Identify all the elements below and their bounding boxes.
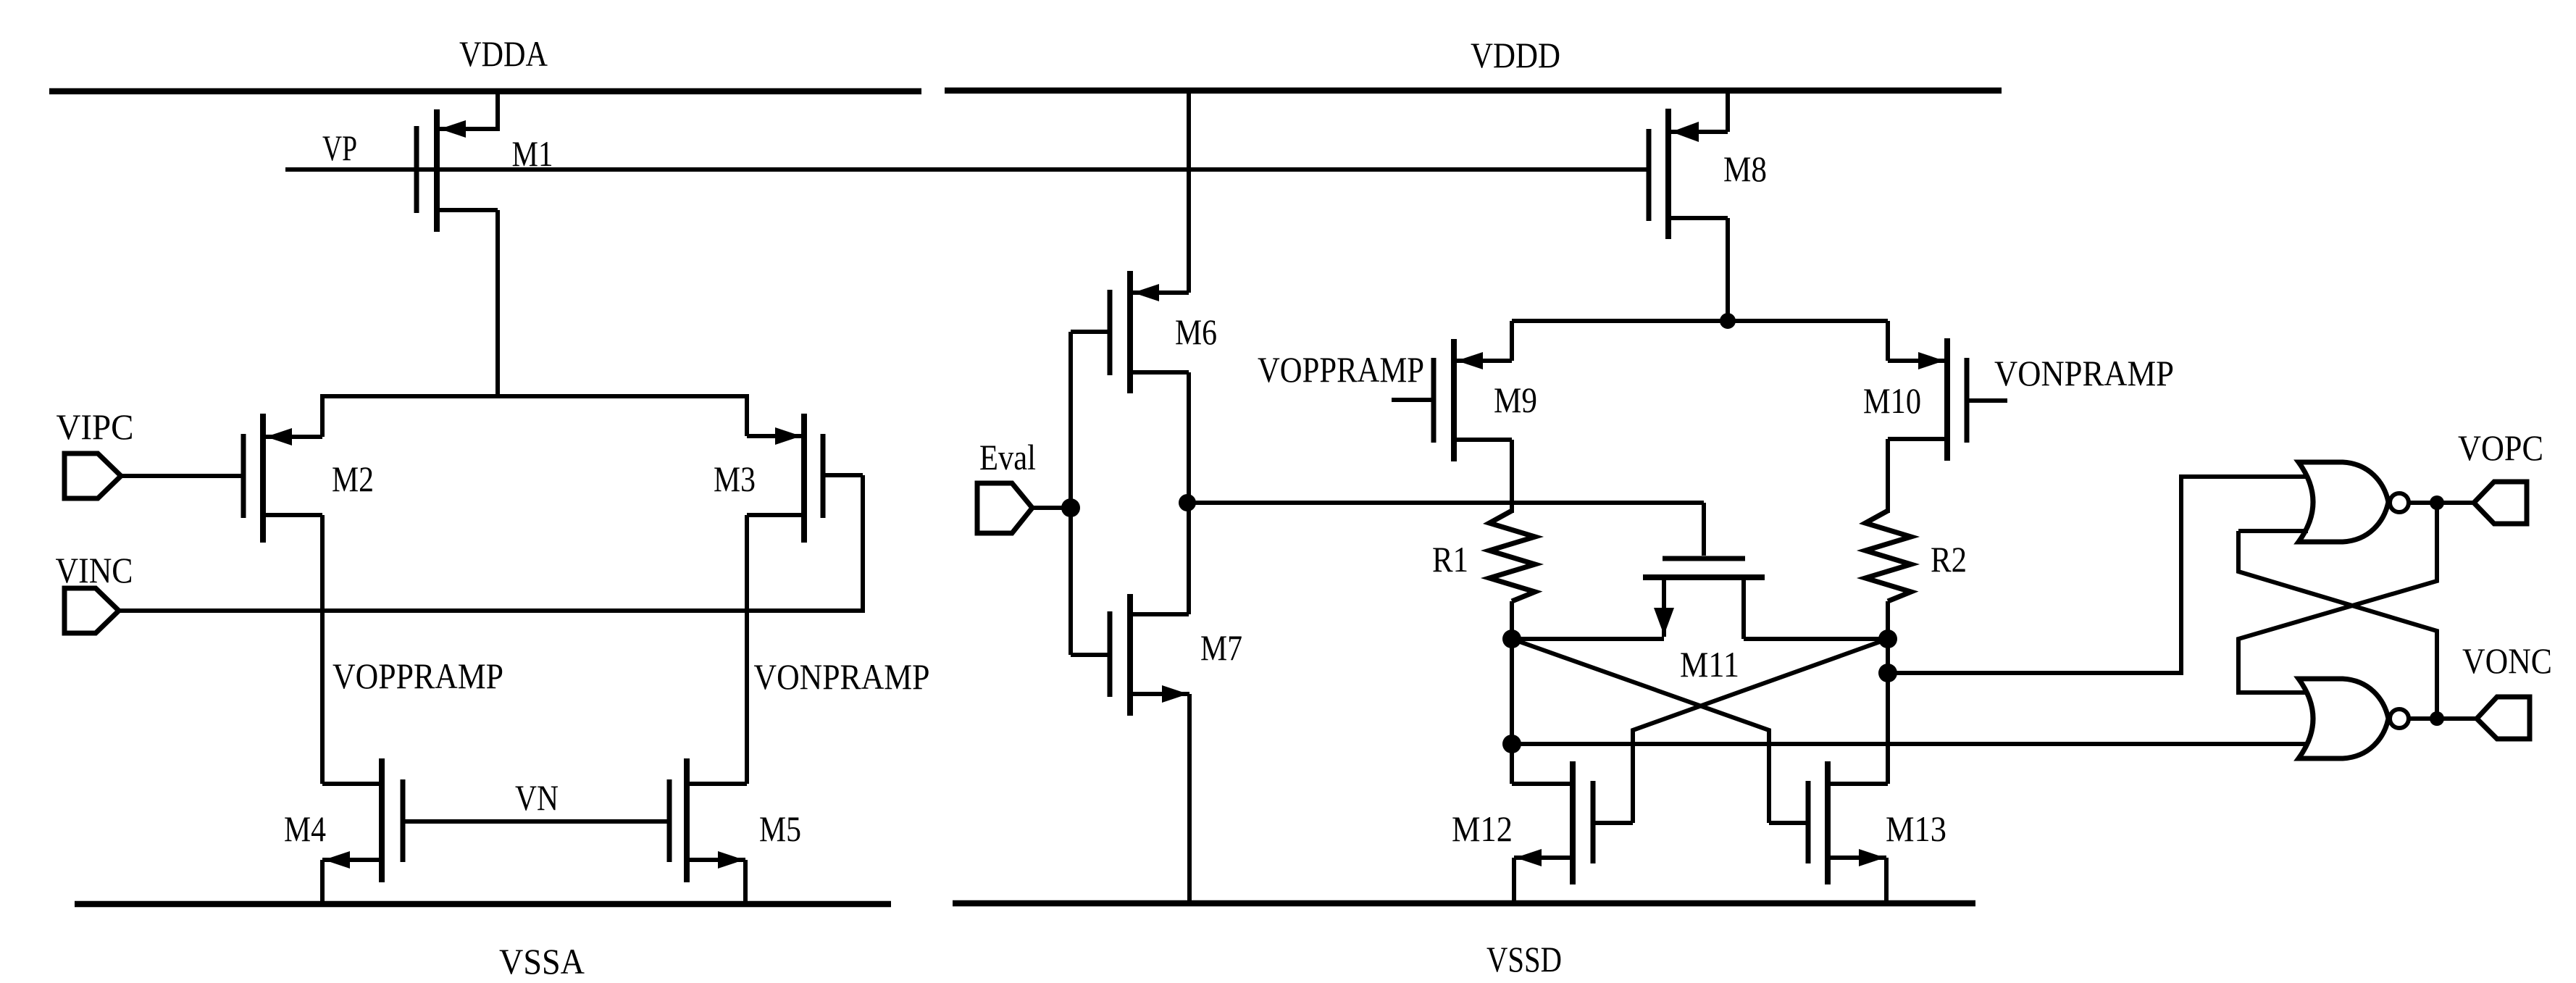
NOR gate U1 [2299, 462, 2409, 542]
svg-text:M12: M12 [1452, 808, 1513, 849]
svg-text:VSSD: VSSD [1486, 939, 1562, 979]
svg-text:M3: M3 [714, 459, 756, 499]
wire NOR2 output [2409, 716, 2480, 721]
port VOPC [2474, 482, 2527, 524]
transistor M7 [1071, 503, 1189, 903]
junction Eval gate [1061, 498, 1080, 517]
svg-text:R1: R1 [1432, 539, 1468, 580]
svg-text:VIPC: VIPC [57, 406, 134, 447]
wire VIPC to M2 gate [119, 474, 243, 478]
transistor M10 [1888, 321, 2007, 513]
svg-text:M10: M10 [1863, 380, 1921, 421]
svg-text:M9: M9 [1494, 380, 1537, 420]
svg-text:M2: M2 [332, 459, 374, 499]
junction NOR1 output [2430, 495, 2444, 510]
svg-text:M1: M1 [512, 133, 553, 174]
wire NOR1 out to NOR2 in [2238, 503, 2437, 693]
wire cross right-to-M12gate [1633, 639, 1888, 823]
svg-text:VONPRAMP: VONPRAMP [1994, 353, 2174, 393]
wire VP bias line [285, 167, 1649, 172]
wire left node to NOR2 input [1512, 742, 2308, 746]
wire right node to NOR1 input [1888, 477, 2307, 673]
junction left output tap [1502, 735, 1521, 753]
NOR gate U2 [2299, 679, 2409, 758]
svg-text:VONC: VONC [2462, 640, 2552, 681]
svg-text:M8: M8 [1723, 149, 1767, 189]
wire left latch vertical [1510, 639, 1514, 784]
svg-text:VDDD: VDDD [1471, 35, 1560, 75]
svg-text:VOPC: VOPC [2458, 427, 2543, 468]
transistor M4 [322, 758, 403, 904]
junction left latch node [1502, 629, 1521, 648]
junction right latch node [1878, 629, 1897, 648]
wire M11 right to node [1744, 637, 1888, 641]
svg-text:VN: VN [515, 777, 559, 818]
resistor R2 [1865, 511, 1911, 641]
svg-text:VSSA: VSSA [499, 941, 585, 982]
svg-text:M11: M11 [1680, 644, 1739, 685]
wire Eval to gates [1031, 506, 1071, 510]
transistor M3 [747, 394, 863, 784]
wire Eval gate vertical [1069, 332, 1073, 655]
svg-text:M5: M5 [759, 808, 801, 849]
transistor M11 [1643, 503, 1765, 639]
transistor M6 [1071, 88, 1189, 505]
svg-text:VOPPRAMP: VOPPRAMP [333, 656, 503, 696]
wire right latch vertical [1886, 639, 1890, 784]
junction M8 drain [1720, 313, 1736, 329]
wire tail node [322, 394, 747, 398]
svg-text:VOPPRAMP: VOPPRAMP [1258, 349, 1424, 390]
wire NOR2 out to NOR1 in [2238, 531, 2437, 719]
port Eval [977, 483, 1032, 533]
svg-text:VDDA: VDDA [459, 33, 548, 74]
power rail VDDA [49, 88, 921, 95]
wire M11 left to node [1512, 637, 1664, 641]
svg-text:M7: M7 [1200, 627, 1242, 668]
port VONC [2477, 697, 2530, 739]
transistor M8 [1649, 88, 1728, 323]
wire VINC to M3 gate [117, 608, 863, 613]
port VINC [64, 588, 119, 633]
wire inverter output to M11 gate [1187, 501, 1704, 505]
junction right output tap [1878, 664, 1897, 682]
ground rail VSSD [953, 900, 1975, 907]
transistor M12 [1512, 761, 1633, 903]
resistor R1 [1489, 511, 1535, 641]
svg-text:VP: VP [322, 127, 357, 168]
svg-text:VINC: VINC [56, 550, 133, 590]
svg-text:M13: M13 [1886, 808, 1946, 849]
wire M8 drain node [1512, 319, 1888, 323]
transistor M13 [1769, 761, 1888, 903]
svg-text:M4: M4 [284, 808, 326, 849]
transistor M1 [417, 89, 498, 398]
svg-text:VONPRAMP: VONPRAMP [754, 656, 930, 697]
junction inverter output [1179, 494, 1196, 511]
svg-text:R2: R2 [1931, 539, 1967, 580]
ground rail VSSA [75, 901, 891, 908]
wire cross left-to-M13gate [1512, 639, 1769, 823]
wire VN gate link [403, 819, 669, 824]
junction NOR2 output [2430, 711, 2444, 726]
wire NOR1 input B [2238, 529, 2308, 533]
svg-text:Eval: Eval [979, 437, 1036, 477]
transistor M9 [1392, 321, 1512, 513]
power rail VDDD [945, 88, 2002, 94]
transistor M5 [669, 758, 747, 904]
transistor M2 [243, 394, 322, 784]
svg-text:M6: M6 [1175, 311, 1217, 352]
wire NOR1 output [2409, 501, 2477, 505]
port VIPC [64, 453, 121, 498]
